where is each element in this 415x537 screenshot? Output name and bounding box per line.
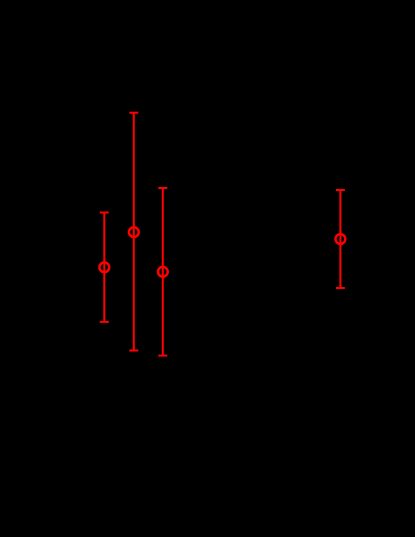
top cap 4 [336, 189, 345, 191]
marker circle 3 [158, 267, 168, 277]
top cap 3 [158, 187, 167, 189]
wire vertical error line 2 [133, 113, 135, 351]
marker circle 4 [336, 234, 346, 244]
bottom cap 3 [158, 355, 167, 357]
wire vertical error line 1 [103, 213, 105, 322]
top cap 1 [100, 212, 109, 214]
errorbar point 3 (x=162.8) [158, 188, 168, 356]
top cap 2 [129, 112, 138, 114]
wire vertical error line 3 [162, 188, 164, 356]
errorbar point 1 (x=104.3) [99, 213, 109, 322]
marker circle 1 [99, 262, 109, 272]
errorbar point 4 (x=340.4) [336, 190, 346, 288]
bottom cap 2 [129, 350, 138, 352]
marker circle 2 [129, 227, 139, 237]
bottom cap 1 [100, 321, 109, 323]
errorbar point 2 (x=133.8) [129, 113, 139, 351]
bottom cap 4 [336, 287, 345, 289]
wire vertical error line 4 [339, 190, 341, 288]
